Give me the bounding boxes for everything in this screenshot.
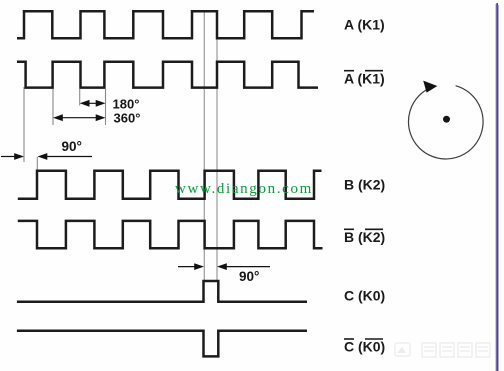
svg-text:A (K1): A (K1) xyxy=(344,17,385,33)
purple page border line xyxy=(496,4,497,371)
waveform A-bar trace xyxy=(17,62,318,88)
signal label B-bar (K2-bar) xyxy=(344,229,385,245)
dimension tick x=79.7 (180 left) xyxy=(79,89,81,106)
rotation arrowhead xyxy=(423,81,437,93)
svg-text:A (K1): A (K1) xyxy=(344,71,385,87)
waveform A trace xyxy=(17,11,314,38)
waveform B-bar trace xyxy=(18,221,323,248)
signal label C-bar (K0-bar) xyxy=(344,339,385,355)
vertical reference line x=217 xyxy=(216,11,218,282)
svg-text:www.diangon.com: www.diangon.com xyxy=(175,181,313,197)
faint corner watermark logo xyxy=(395,343,490,357)
waveform C-bar trace with index notch xyxy=(17,331,307,357)
svg-text:C (K0): C (K0) xyxy=(344,339,385,355)
svg-text:90°: 90° xyxy=(62,139,82,154)
rotation axis dot xyxy=(443,116,450,123)
svg-text:B (K2): B (K2) xyxy=(344,229,385,245)
svg-text:B (K2): B (K2) xyxy=(344,176,385,192)
dimension arrow 180 degrees xyxy=(80,100,106,107)
waveform C trace with index pulse xyxy=(17,281,307,302)
dimension tick x=53 (360 left) xyxy=(52,89,54,125)
dimension arrow 360 degrees xyxy=(53,114,106,121)
dimension tick x=105.5 (180/360 right) xyxy=(105,89,107,125)
dimension arrows 90 degrees upper (outside style) xyxy=(1,153,92,160)
svg-text:90°: 90° xyxy=(239,269,259,284)
rotation direction circle xyxy=(408,86,483,159)
vertical reference line x=204 xyxy=(203,11,205,282)
dimension arrows 90 degrees lower (outside style) xyxy=(178,263,270,270)
waveform B trace xyxy=(18,171,322,199)
dimension extension line x=24 (A first rise) xyxy=(23,87,25,162)
svg-text:C (K0): C (K0) xyxy=(344,288,385,304)
svg-text:360°: 360° xyxy=(114,111,141,126)
dimension extension stub x=37.5 (B first rise) xyxy=(36,157,38,170)
signal label A-bar (K1-bar) xyxy=(344,71,385,87)
svg-text:180°: 180° xyxy=(113,96,140,111)
